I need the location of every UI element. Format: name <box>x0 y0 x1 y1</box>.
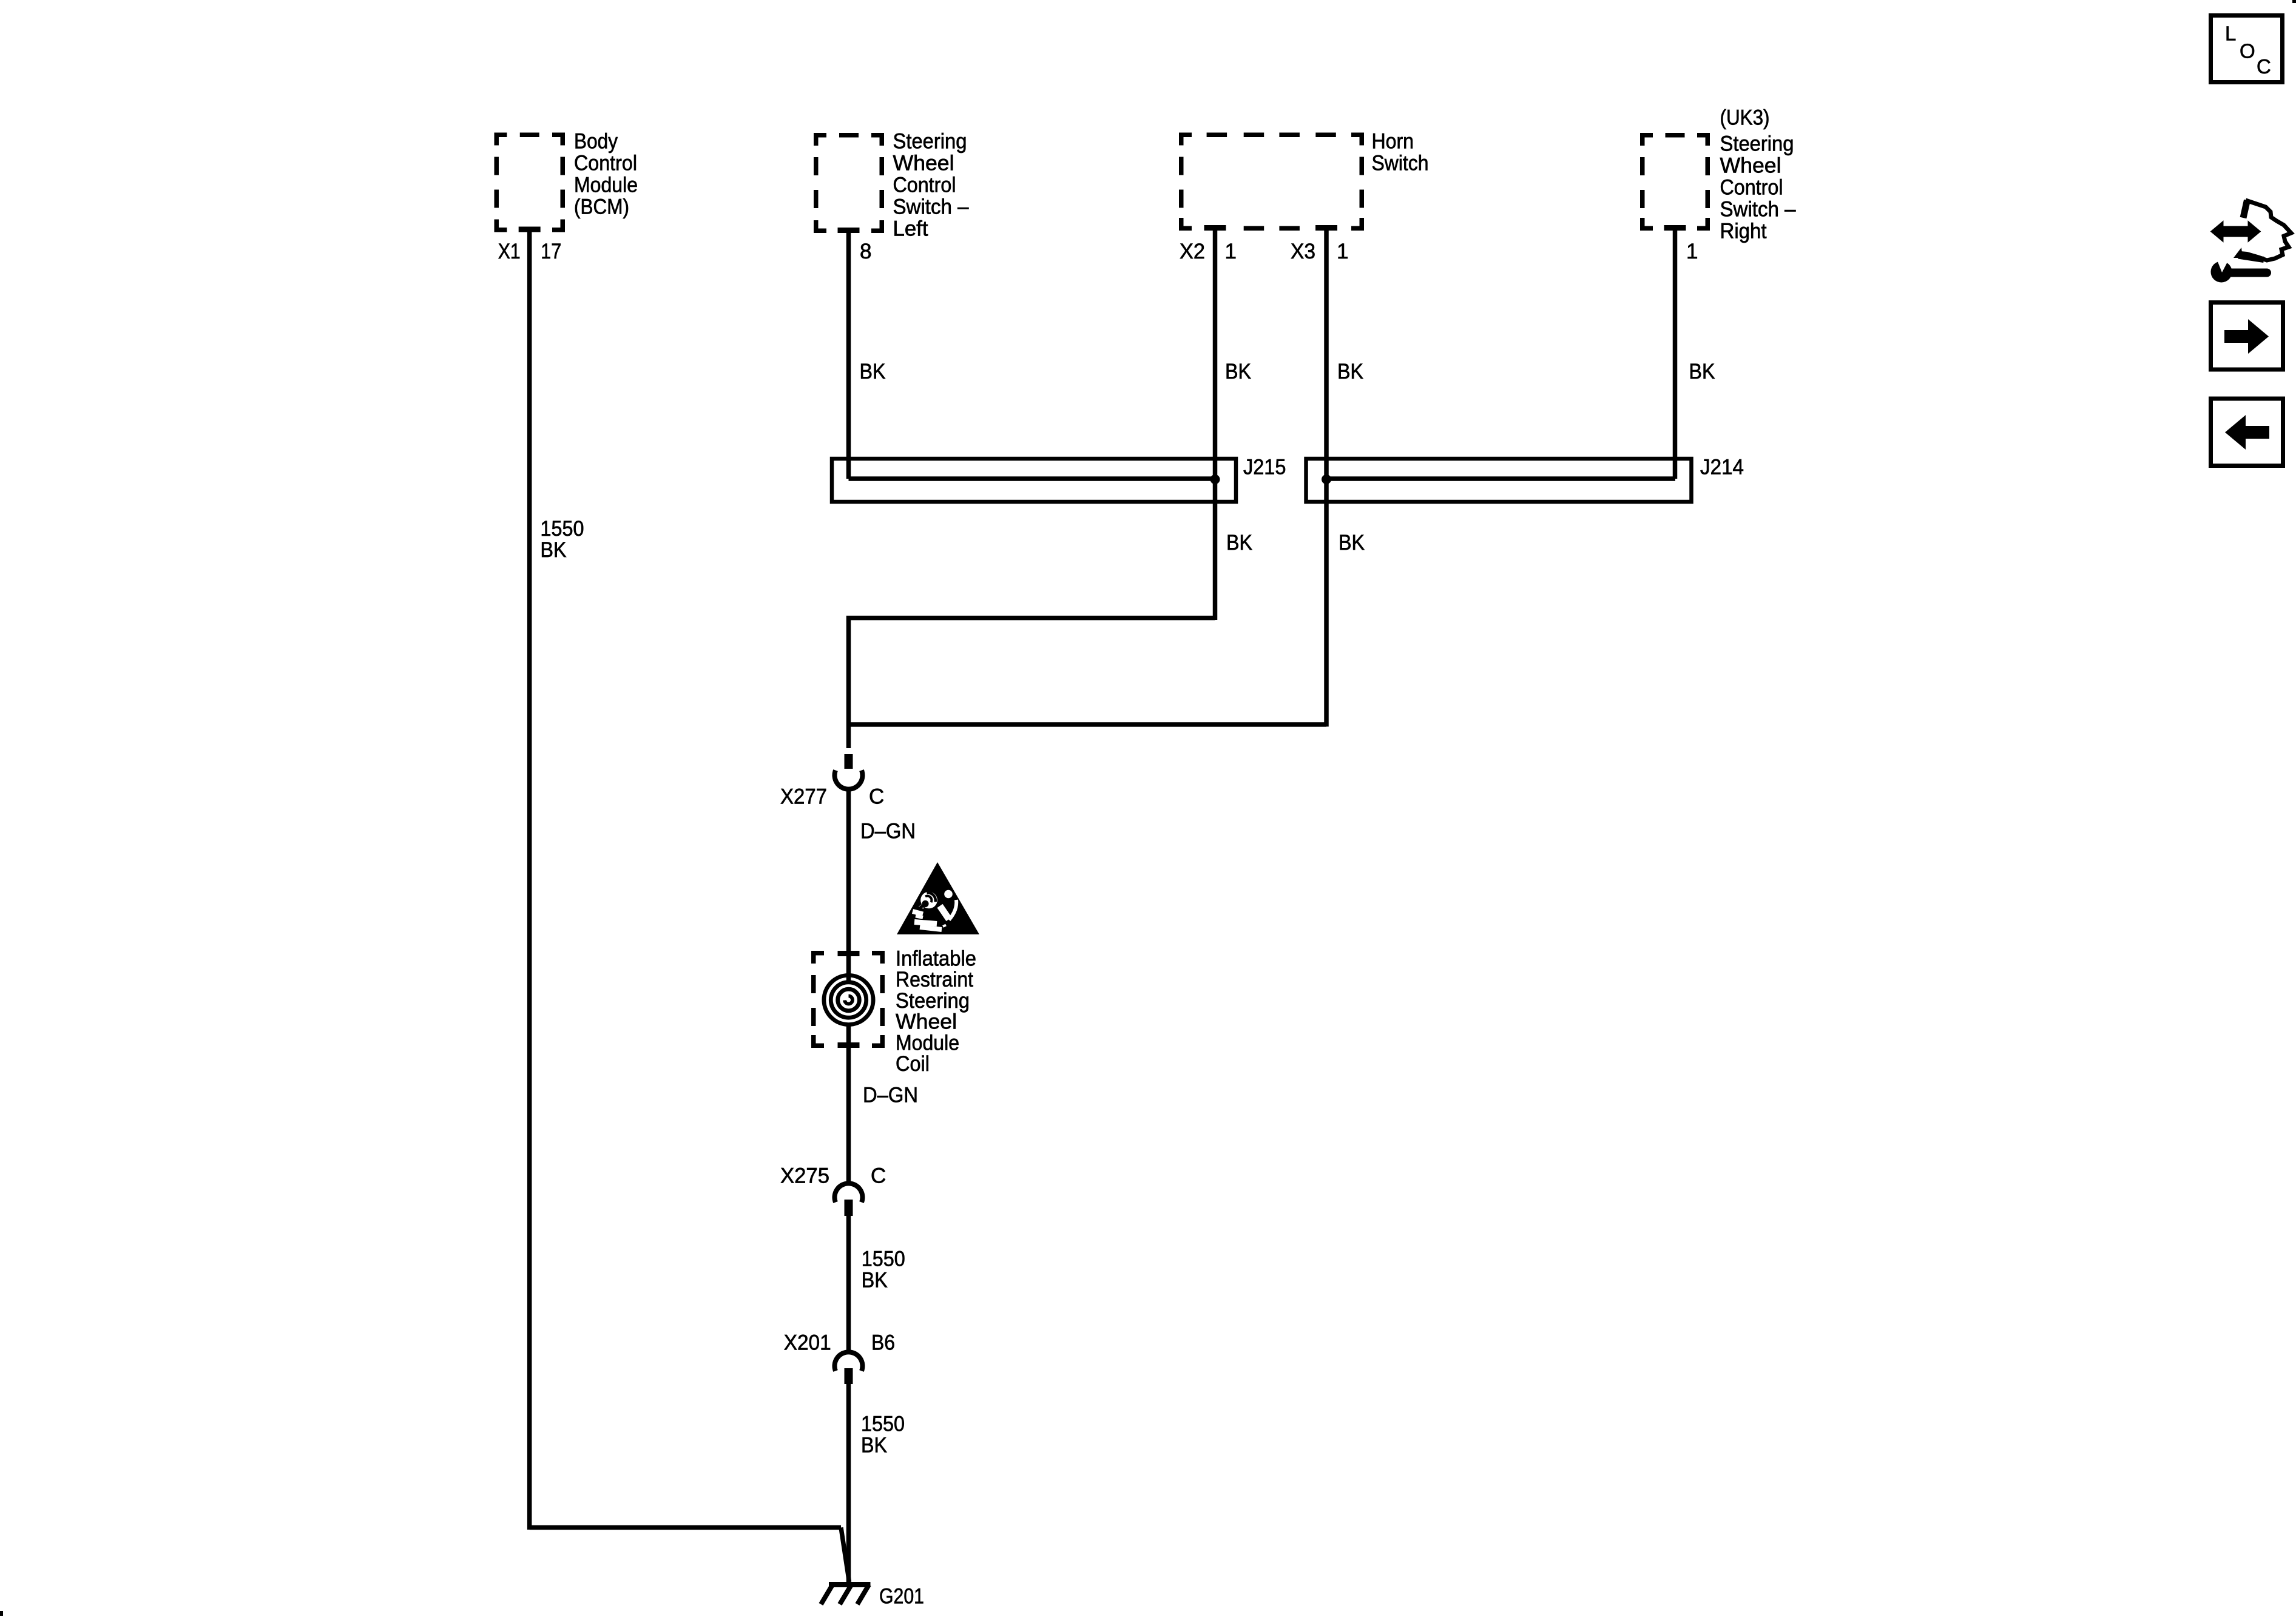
ground G201 symbol <box>829 1582 871 1587</box>
svg-text:(BCM): (BCM) <box>574 195 629 219</box>
module box: Body Control Module (BCM) <box>496 135 507 145</box>
svg-text:Steering: Steering <box>893 130 967 154</box>
svg-text:X3: X3 <box>1291 240 1315 263</box>
junction dot J215 <box>1210 474 1220 484</box>
wire: SWC-Right pin 1 BK <box>1673 230 1678 479</box>
junction dot J214 <box>1322 474 1331 484</box>
clockspring coil symbol <box>824 975 873 1024</box>
svg-text:X1: X1 <box>498 240 521 263</box>
icon: adjustable component (arrows, hand and wrench) <box>2212 223 2260 241</box>
connector X201 male pin <box>845 1368 853 1384</box>
wire: Horn X3 BK through J214 <box>1324 230 1329 727</box>
svg-text:X201: X201 <box>784 1331 831 1355</box>
svg-text:Steering: Steering <box>1720 132 1794 156</box>
svg-text:J214: J214 <box>1700 456 1744 479</box>
svg-text:Inflatable: Inflatable <box>896 947 976 971</box>
svg-text:1: 1 <box>1225 240 1237 263</box>
module box: Steering Wheel Control Switch - Right (UK3) <box>1643 135 1653 146</box>
wire: Horn X2 BK through J215 <box>1213 230 1218 620</box>
svg-text:BK: BK <box>1225 360 1251 383</box>
svg-text:Control: Control <box>1720 176 1783 200</box>
module box: Steering Wheel Control Switch - Left <box>816 135 826 146</box>
wire: X2 branch to X277 <box>849 618 1215 749</box>
svg-text:Right: Right <box>1720 220 1767 243</box>
connector X277 female socket <box>835 771 863 789</box>
module box: Horn Switch <box>1181 135 1192 145</box>
wire: BCM X1-17 1550 BK vertical <box>527 232 532 1530</box>
svg-text:C: C <box>871 1164 886 1188</box>
wire: X275 to X201 1550 BK <box>846 1216 851 1352</box>
svg-text:BK: BK <box>1226 531 1252 555</box>
svg-text:G201: G201 <box>879 1585 924 1609</box>
svg-text:X2: X2 <box>1180 240 1205 263</box>
svg-text:Wheel: Wheel <box>1720 154 1781 178</box>
svg-text:X275: X275 <box>780 1164 829 1188</box>
svg-text:1: 1 <box>1686 240 1698 263</box>
svg-text:X277: X277 <box>780 785 827 809</box>
icon: LOC reference box <box>2211 16 2283 83</box>
wire: SWC-Left pin 8 BK <box>846 232 851 479</box>
module box: Inflatable Restraint Steering Wheel Module Coil <box>814 953 824 964</box>
svg-text:1550: 1550 <box>862 1247 905 1271</box>
svg-text:Body: Body <box>574 130 618 154</box>
connector X275 male pin <box>845 1200 853 1216</box>
svg-text:8: 8 <box>860 240 871 263</box>
svg-text:Left: Left <box>893 217 928 241</box>
svg-text:BK: BK <box>1339 531 1365 555</box>
svg-text:Module: Module <box>896 1031 959 1055</box>
svg-text:Module: Module <box>574 174 638 197</box>
icon: back arrow box <box>2211 399 2283 466</box>
splice pack J215 <box>832 459 1236 502</box>
svg-text:Wheel: Wheel <box>896 1010 957 1034</box>
svg-text:J215: J215 <box>1243 456 1286 479</box>
wire: X3 branch joining X277 wire <box>849 722 1327 727</box>
wire: diagonal into ground <box>841 1528 849 1582</box>
wire: J215 internal bus <box>849 476 1215 481</box>
icon: forward arrow box <box>2211 303 2283 370</box>
svg-text:Coil: Coil <box>896 1052 930 1076</box>
svg-text:BK: BK <box>861 1434 887 1457</box>
wire: X201 to G201 1550 BK <box>846 1384 851 1584</box>
svg-text:D–GN: D–GN <box>860 820 916 843</box>
splice pack J214 <box>1306 459 1692 502</box>
svg-text:(UK3): (UK3) <box>1720 106 1770 130</box>
svg-text:1550: 1550 <box>861 1413 905 1436</box>
svg-text:O: O <box>2240 40 2255 62</box>
svg-text:BK: BK <box>862 1269 888 1292</box>
connector X275 female socket <box>835 1183 863 1202</box>
svg-text:L: L <box>2225 22 2236 45</box>
page corner mark bottom-left <box>0 1611 3 1616</box>
connector X201 female socket <box>835 1352 863 1371</box>
svg-text:B6: B6 <box>871 1331 895 1355</box>
svg-text:17: 17 <box>541 240 561 263</box>
page corner mark top-right <box>2292 0 2296 3</box>
svg-text:BK: BK <box>1337 360 1363 383</box>
svg-text:Horn: Horn <box>1372 130 1414 154</box>
svg-text:C: C <box>2257 55 2271 78</box>
svg-text:1: 1 <box>1337 240 1348 263</box>
connector X277 male pin <box>845 754 853 769</box>
svg-text:BK: BK <box>1689 360 1715 383</box>
wire: J214 internal bus <box>1326 476 1675 481</box>
wire: through coil <box>846 1024 851 1184</box>
svg-text:Wheel: Wheel <box>893 152 954 175</box>
svg-text:C: C <box>869 785 884 809</box>
wire: BCM ground run horizontal <box>530 1525 841 1530</box>
svg-text:Control: Control <box>893 174 956 197</box>
svg-text:D–GN: D–GN <box>863 1084 918 1107</box>
svg-text:BK: BK <box>541 538 567 562</box>
svg-text:Control: Control <box>574 152 637 175</box>
svg-text:Restraint: Restraint <box>896 968 973 991</box>
svg-text:Switch –: Switch – <box>1720 198 1796 221</box>
svg-text:BK: BK <box>860 360 886 383</box>
svg-text:Switch: Switch <box>1372 152 1429 175</box>
wire: X277 to coil D-GN <box>846 788 851 983</box>
svg-text:1550: 1550 <box>541 517 584 541</box>
svg-text:Switch –: Switch – <box>893 195 969 219</box>
svg-text:Steering: Steering <box>896 989 970 1013</box>
